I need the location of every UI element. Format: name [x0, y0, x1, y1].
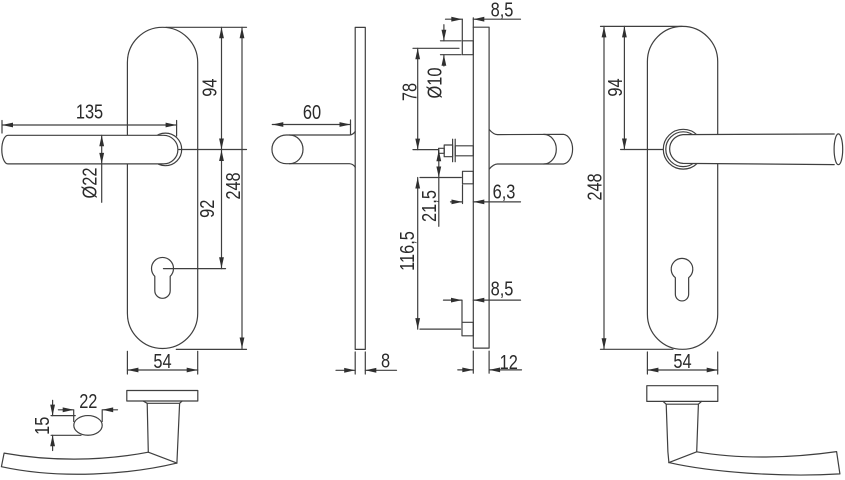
svg-text:22: 22 [79, 389, 97, 412]
extension line: 135 right [176, 121, 178, 137]
extension lines: 8 [354, 352, 356, 374]
plate side profile [355, 27, 365, 349]
neck end cap inner arc [290, 135, 304, 164]
extension: top boss left face [461, 19, 463, 40]
svg-text:8: 8 [381, 349, 390, 372]
dimension 8,5 top [446, 0, 521, 22]
neck sides [147, 403, 179, 463]
backplate (front view left) [127, 27, 197, 348]
tube end cap ellipse [834, 134, 843, 165]
keyhole (right) [671, 258, 693, 301]
svg-text:8,5: 8,5 [491, 277, 514, 300]
extension: bottom boss centre [420, 328, 461, 330]
dimension 15 [30, 400, 55, 450]
rose boss circle [149, 133, 182, 166]
dimension 22 [58, 389, 117, 412]
extension line: keyhole centre [164, 268, 226, 270]
svg-text:248: 248 [583, 173, 606, 200]
extension line: handle centre (right view) [621, 149, 663, 151]
plate (top view right) [647, 386, 718, 402]
spindle screw shank [455, 146, 473, 156]
svg-text:78: 78 [398, 83, 421, 101]
dimension 8 [336, 349, 397, 373]
spindle thread stub [439, 148, 445, 153]
svg-text:116,5: 116,5 [395, 231, 418, 271]
extension line: 54 right (right view) [717, 352, 719, 374]
dimension 248 (left view) [221, 27, 244, 348]
extension line: plate bottom (right view) [601, 348, 674, 350]
grip end section ellipse [74, 416, 102, 436]
extension lines: 15 [51, 415, 75, 417]
extension line: 54 left (right view) [646, 352, 648, 374]
square spindle stub [463, 171, 474, 184]
dimension 60 [272, 100, 350, 127]
lever handle tube [2, 135, 178, 164]
dimension 248 (right view) [583, 26, 606, 349]
svg-text:Ø22: Ø22 [78, 168, 101, 199]
svg-text:21,5: 21,5 [418, 190, 441, 222]
plate edge profile [473, 27, 489, 348]
curved grip band (right) [669, 452, 840, 475]
plate (top view left) [127, 391, 198, 402]
dimension 94 (left view) [198, 27, 224, 149]
extension: top boss top/bottom [441, 40, 462, 42]
neck flare cone (right) [663, 401, 701, 404]
svg-text:Ø10: Ø10 [423, 68, 446, 99]
svg-text:6,3: 6,3 [493, 180, 516, 203]
curved grip band [1, 452, 177, 474]
grip transition edge (right) [669, 452, 697, 463]
dimension diameter 10 [423, 25, 446, 99]
neck sides (right) [666, 404, 698, 462]
svg-text:94: 94 [603, 78, 626, 96]
svg-text:8,5: 8,5 [491, 0, 514, 21]
svg-text:135: 135 [76, 100, 103, 123]
dimension 6,3 [451, 180, 521, 205]
dimension 54 (right view) [647, 349, 717, 372]
neck flare cone [143, 401, 182, 403]
dimension 94 (right view) [603, 26, 626, 149]
dimension 78 [398, 48, 421, 149]
extension line: plate bottom [176, 348, 246, 350]
dimension 116,5 [395, 178, 420, 330]
svg-text:54: 54 [153, 349, 171, 372]
spindle washer [452, 139, 454, 162]
extension line: 54 left [126, 351, 128, 374]
handle neck and grip (edge view) [489, 130, 572, 170]
dimension 135 [2, 100, 177, 127]
dimension 92 [195, 150, 223, 269]
svg-text:92: 92 [195, 200, 218, 218]
svg-text:248: 248 [221, 172, 244, 199]
extension: spindle stub centre [420, 177, 461, 179]
extension: bottom boss left face [461, 301, 463, 322]
rose boss inner circle [666, 132, 701, 167]
svg-text:54: 54 [673, 349, 691, 372]
extension: spindle stub left face [462, 185, 464, 204]
grip end cap inner arc [544, 134, 557, 164]
extension line: handle centre [179, 149, 247, 151]
dimension 54 (left view) [127, 349, 197, 372]
dimension 12 [458, 350, 522, 373]
svg-text:94: 94 [198, 78, 221, 96]
grip transition edge [148, 452, 177, 463]
extension line: plate top (right view) [601, 25, 683, 27]
extension line: 54 right [197, 351, 199, 374]
spindle nut [444, 145, 452, 157]
extension: spindle centre [413, 149, 438, 151]
lever handle tube (right) [670, 134, 839, 165]
plate left edge extension above top [472, 18, 474, 27]
extension line: 135 left [1, 121, 3, 134]
extension line: 60 right [350, 120, 352, 134]
extension lines: 22 [73, 411, 75, 422]
dimension diameter 22 [78, 135, 104, 202]
handle neck (side) [272, 132, 355, 168]
bottom screw boss [462, 322, 473, 336]
svg-text:15: 15 [30, 417, 53, 435]
extension lines: 12 [472, 351, 474, 373]
rose boss outer circle [663, 129, 703, 169]
svg-text:12: 12 [500, 350, 518, 373]
dimension 21,5 [418, 150, 442, 227]
svg-text:60: 60 [303, 100, 321, 123]
top screw boss [462, 41, 473, 55]
dimension 8,5 bottom [444, 277, 521, 303]
backplate (front view right) [647, 26, 717, 349]
extension line: plate top [166, 26, 247, 28]
extension: top boss centre [413, 47, 459, 49]
keyhole (profile cylinder) [152, 257, 174, 298]
